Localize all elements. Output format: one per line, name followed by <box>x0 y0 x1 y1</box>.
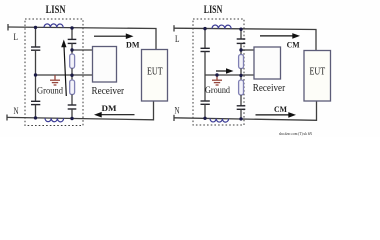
svg-text:CM: CM <box>287 39 300 49</box>
wire: left branch to N (CM) <box>204 104 206 118</box>
wire: right branch to tap (DM) <box>71 43 73 54</box>
resistor R2 (DM) <box>70 80 75 95</box>
wire: cap to N line (CM) <box>240 109 242 119</box>
wire: tap to receiver top (CM) <box>241 49 254 51</box>
wire: right branch top (DM) <box>71 28 73 40</box>
svg-text:Receiver: Receiver <box>92 85 125 97</box>
LISN box (dashed) left <box>25 19 83 126</box>
svg-text:DM: DM <box>102 103 117 113</box>
capacitor C8 right-bottom (CM) <box>237 106 246 110</box>
terminal tick N (CM) <box>173 115 175 121</box>
resistor R1 (DM) <box>70 54 75 68</box>
Receiver box (CM) <box>254 47 281 79</box>
terminal tick L (CM) <box>173 25 175 31</box>
svg-text:L: L <box>14 33 19 43</box>
wire: tap to receiver top (DM) <box>72 49 93 51</box>
wire: L line top (DM) <box>8 27 156 50</box>
svg-text:DM: DM <box>126 39 140 49</box>
wire: resistor to cap (CM) <box>240 95 242 106</box>
capacitor C2 bottom-left (DM) <box>31 101 40 104</box>
ground symbol (DM) <box>50 75 60 85</box>
capacitor C6 bottom-left (CM) <box>201 101 210 104</box>
junction dots (DM) <box>34 26 37 29</box>
wire: resistor to bus (CM) <box>240 69 242 81</box>
resistor R4 (CM) <box>239 80 244 95</box>
wire: left branch (DM) <box>35 27 37 47</box>
current arrow right (CM) <box>216 70 227 72</box>
wire: cap to N line (DM) <box>71 109 73 119</box>
svg-text:Ground: Ground <box>205 85 230 95</box>
capacitor C4 right-bottom (DM) <box>68 105 77 109</box>
DM arrow bottom <box>101 114 135 116</box>
svg-text:shu.dzsc.com (T) uk hN: shu.dzsc.com (T) uk hN <box>279 131 313 136</box>
LISN box (dashed) right <box>193 19 244 125</box>
EUT box (CM) <box>304 51 331 102</box>
wire: left branch to N (DM) <box>35 105 37 118</box>
current arrow up (DM) <box>64 46 66 96</box>
wire: ground bus (CM) <box>205 74 254 76</box>
svg-text:LISN: LISN <box>204 4 223 16</box>
svg-text:EUT: EUT <box>310 67 326 78</box>
inductor on L line (CM) <box>212 25 231 29</box>
capacitor C5 top-left (CM) <box>201 48 210 51</box>
svg-text:CM: CM <box>274 104 287 114</box>
inductor on L line (DM) <box>44 24 63 28</box>
terminal tick L (DM) <box>7 24 9 31</box>
terminal tick N (DM) <box>6 115 8 121</box>
wire: left branch (CM) <box>204 29 206 49</box>
svg-text:Receiver: Receiver <box>253 82 286 94</box>
capacitor C7 right-top (CM) <box>237 39 246 43</box>
wire: ground bus (DM) <box>36 74 93 76</box>
wire: left branch mid (CM) <box>204 52 206 102</box>
wire: L line top (CM) <box>174 28 316 50</box>
EUT box (DM) <box>142 50 168 102</box>
DM arrow top <box>94 35 127 37</box>
inductor on N line (CM) <box>210 118 229 122</box>
svg-text:N: N <box>14 106 19 116</box>
CM arrow top <box>260 35 294 37</box>
svg-text:N: N <box>175 106 180 116</box>
capacitor C3 right-top (DM) <box>68 39 77 43</box>
wire: N line bottom (DM) <box>7 101 154 120</box>
capacitor C1 top-left (DM) <box>31 47 40 50</box>
ground symbol (CM) <box>212 75 222 85</box>
svg-text:Ground: Ground <box>37 86 63 96</box>
CM arrow bottom <box>256 114 290 116</box>
svg-text:EUT: EUT <box>147 67 163 78</box>
resistor R3 (CM) <box>239 55 244 69</box>
wire: right branch top (CM) <box>240 29 242 39</box>
wire: resistor to bus (DM) <box>71 68 73 80</box>
svg-text:LISN: LISN <box>46 4 67 16</box>
wire: N line bottom (CM) <box>174 101 317 120</box>
wire: left branch mid (DM) <box>35 50 37 101</box>
inductor on N line (DM) <box>45 118 64 122</box>
wire: right branch to tap (CM) <box>240 43 242 54</box>
Receiver box (DM) <box>93 47 117 83</box>
wire: resistor to cap (DM) <box>71 95 73 106</box>
svg-text:L: L <box>175 35 180 45</box>
junction dots (CM) <box>203 27 206 30</box>
